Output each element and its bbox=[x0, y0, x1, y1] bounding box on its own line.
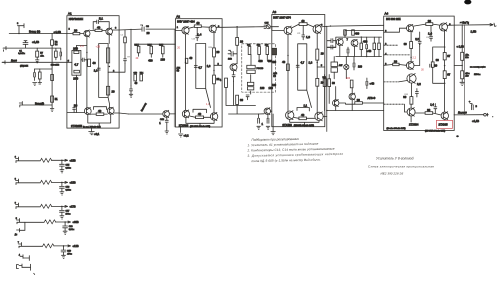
svg-text:Вход (п): Вход (п) bbox=[29, 30, 40, 34]
resistor zigzag R61 bbox=[40, 158, 52, 162]
node dot A4 bbox=[410, 57, 411, 58]
wire VT22 VT23 emitters down bbox=[411, 116, 445, 122]
wire input bus to A1 bbox=[9, 33, 67, 35]
svg-text:30: 30 bbox=[404, 42, 407, 46]
ground row1 bbox=[60, 170, 64, 173]
ground below A2 bbox=[179, 127, 183, 137]
svg-text:Схема электрическая принципи: Схема электрическая принципиальная bbox=[368, 165, 434, 169]
resistor R39 bbox=[316, 49, 319, 60]
svg-text:2ТХ408: 2ТХ408 bbox=[282, 123, 292, 127]
wire R5 C3 leads bbox=[52, 48, 61, 60]
resistor zigzag R64 bbox=[44, 220, 56, 224]
resistor R46 bbox=[328, 79, 331, 87]
svg-text:4,7: 4,7 bbox=[74, 63, 78, 67]
svg-text:+2В: +2В bbox=[96, 46, 101, 49]
svg-text:(П): (П) bbox=[273, 76, 276, 78]
relay K2 contacts bbox=[247, 82, 253, 85]
wire resistor stubs bbox=[139, 44, 163, 57]
arrow row5 bbox=[68, 245, 71, 247]
box A1 bbox=[67, 16, 119, 128]
capacitor C25 bbox=[366, 78, 368, 89]
node dot A1 input bbox=[86, 52, 87, 53]
resistor R31 bbox=[236, 95, 239, 104]
svg-text:+0,1: +0,1 bbox=[94, 132, 100, 136]
svg-text:R24: R24 bbox=[209, 47, 212, 49]
svg-text:+1,1В: +1,1В bbox=[472, 119, 479, 123]
terminal output bbox=[484, 113, 487, 116]
svg-text:2ТХ404: 2ТХ404 bbox=[409, 123, 419, 127]
terminal F3 bbox=[16, 203, 19, 209]
node dot A2 bbox=[185, 62, 186, 63]
connector X2 bbox=[266, 25, 270, 29]
wire input 3 to pin9 bbox=[3, 61, 67, 63]
wire R57 to R58 bbox=[454, 60, 462, 71]
svg-text:10В: 10В bbox=[228, 58, 232, 60]
svg-text:67: 67 bbox=[447, 54, 450, 58]
svg-text:4Вт: 4Вт bbox=[465, 76, 468, 78]
node bbox=[462, 65, 463, 66]
transistor VT6 bbox=[182, 27, 189, 34]
wire row3 bbox=[16, 205, 68, 207]
svg-text:40: 40 bbox=[189, 56, 192, 60]
node bbox=[236, 26, 237, 27]
svg-text:(4В)С1Е: (4В)С1Е bbox=[20, 66, 29, 68]
resistor R34 bbox=[266, 47, 269, 55]
svg-text:А3: А3 bbox=[273, 10, 277, 14]
ground row5 bbox=[62, 255, 66, 258]
ground C20 bbox=[266, 126, 270, 129]
loop lower A3 bbox=[297, 108, 309, 112]
transistor VT3 bbox=[84, 108, 91, 115]
capacitor C11 bbox=[130, 86, 133, 95]
svg-text:R12: R12 bbox=[148, 45, 151, 47]
ground C12 bbox=[165, 131, 169, 134]
svg-text:+60В: +60В bbox=[73, 220, 79, 224]
capacitor C25b bbox=[353, 60, 355, 70]
resistor R47 bbox=[350, 80, 353, 88]
svg-text:680×10В: 680×10В bbox=[51, 63, 60, 66]
resistor R9 20 bbox=[73, 32, 80, 34]
resistor R45 bbox=[323, 79, 326, 87]
ground row4 bbox=[63, 231, 67, 234]
svg-text:(2П 305А 800мВт 1:7П): (2П 305А 800мВт 1:7П) bbox=[294, 124, 315, 127]
capacitor C7 bbox=[73, 105, 76, 113]
node dot bbox=[492, 116, 493, 117]
wire VT19 out bbox=[448, 24, 455, 26]
capacitor C6 bbox=[81, 58, 87, 62]
wire output top bbox=[454, 24, 493, 26]
svg-text:20: 20 bbox=[74, 104, 78, 108]
box A2 bbox=[175, 19, 222, 127]
svg-text:0,047м: 0,047м bbox=[18, 53, 25, 55]
resistor zigzag R65 bbox=[43, 244, 55, 248]
svg-text:2,2: 2,2 bbox=[417, 82, 421, 86]
wire VT5 to A2 bbox=[169, 113, 175, 115]
node bbox=[330, 25, 331, 26]
resistor R20 bbox=[162, 46, 165, 54]
svg-text:≈ 5мГц: ≈ 5мГц bbox=[460, 21, 469, 25]
svg-text:40: 40 bbox=[97, 25, 101, 29]
resistor R30 bbox=[225, 78, 228, 87]
terminal F5 bbox=[19, 243, 22, 248]
capacitor C17 bbox=[232, 71, 235, 81]
wire R1 leads bbox=[36, 48, 38, 60]
wire VT13 emitter bbox=[316, 33, 318, 112]
feedback loop x432 bbox=[433, 47, 445, 83]
red box 2ТХ305 bbox=[437, 120, 453, 128]
wire row5 bbox=[19, 245, 71, 247]
svg-text:1,3: 1,3 bbox=[306, 35, 310, 39]
resistor R18 bbox=[137, 46, 140, 53]
capacitor C16f bbox=[60, 182, 65, 191]
svg-text:40: 40 bbox=[196, 21, 200, 25]
resistor R11b bbox=[74, 70, 80, 73]
wire row2 bbox=[16, 181, 68, 183]
capacitor C24 bbox=[366, 42, 368, 52]
wire A3 out lower bbox=[323, 116, 327, 118]
svg-text:+1,1В: +1,1В bbox=[32, 40, 39, 44]
svg-text:R21: R21 bbox=[247, 45, 250, 47]
svg-text:200: 200 bbox=[73, 76, 78, 80]
resistor R39b bbox=[316, 78, 319, 86]
resistor R15 bbox=[107, 86, 110, 95]
diode VD1 bbox=[344, 64, 349, 69]
capacitor C27 slant bbox=[418, 38, 421, 47]
transistor VT4 bbox=[107, 107, 114, 114]
svg-text:20: 20 bbox=[112, 89, 116, 93]
svg-text:1500м: 1500м bbox=[474, 74, 481, 76]
wire VT3-R16-VT4 bbox=[91, 113, 107, 115]
wire R29 down bbox=[236, 45, 238, 64]
node dots bus bbox=[138, 44, 139, 45]
loop lower A2 bbox=[193, 109, 207, 112]
resistor R24b bbox=[213, 75, 216, 84]
wire R2 leads bbox=[51, 34, 53, 106]
capacitor C31 bbox=[469, 101, 473, 110]
svg-text:100м: 100м bbox=[66, 213, 71, 215]
wire cluster bus lower bbox=[336, 37, 382, 56]
wire pin4b dashed bbox=[384, 103, 405, 105]
transistor VT8 bbox=[182, 110, 189, 117]
resistor R25 bbox=[185, 58, 188, 63]
node dot rail bbox=[326, 110, 327, 111]
resistor R42 bbox=[352, 30, 355, 35]
node dot A3b bbox=[317, 62, 318, 63]
terminal F2 bbox=[16, 179, 19, 185]
wire lower buses bbox=[327, 103, 384, 111]
svg-text:40: 40 bbox=[301, 113, 305, 117]
svg-text:+ 1,9В: + 1,9В bbox=[457, 46, 465, 49]
svg-text:1,3: 1,3 bbox=[80, 45, 84, 48]
svg-text:20: 20 bbox=[434, 64, 437, 68]
svg-text:20: 20 bbox=[428, 19, 432, 23]
wire VT12 base bbox=[272, 29, 284, 31]
resistor R32 bbox=[248, 47, 251, 55]
svg-text:1,3: 1,3 bbox=[207, 64, 211, 68]
resistor R37 bbox=[287, 64, 290, 71]
svg-text:А1: А1 bbox=[68, 11, 72, 15]
wire A1 out to C8 bbox=[119, 28, 175, 31]
transistor VT13 bbox=[313, 25, 321, 33]
wire heavy vertical bbox=[272, 114, 274, 132]
box A4 bbox=[384, 16, 455, 130]
transistor VT7 bbox=[209, 25, 216, 32]
svg-text:R55: R55 bbox=[405, 94, 408, 96]
wire stub VT16 bbox=[325, 75, 353, 111]
capacitor C24b bbox=[347, 47, 349, 56]
svg-text:+15В: +15В bbox=[70, 158, 76, 162]
wire VT22-R56-VT23 bbox=[415, 113, 441, 115]
capacitor C19f bbox=[61, 246, 66, 255]
wire R6 leads bbox=[39, 69, 41, 83]
svg-text:АЛ4: АЛ4 bbox=[177, 67, 181, 70]
wire VT6 emitter bbox=[185, 34, 187, 110]
node dot A4b bbox=[419, 44, 420, 45]
transistor VT1 bbox=[84, 30, 90, 36]
transistor VT22 bbox=[407, 108, 415, 116]
svg-text:4,7: 4,7 bbox=[301, 60, 305, 64]
svg-text:+0,2: +0,2 bbox=[184, 134, 190, 138]
wire VT1 emitter down bbox=[76, 37, 87, 113]
wire pin4 dashed bbox=[384, 54, 411, 56]
wire row stubs bbox=[334, 57, 354, 79]
svg-text:100: 100 bbox=[272, 84, 277, 87]
ground C19 bbox=[257, 126, 261, 129]
wire A3 out top to A4 bbox=[331, 24, 384, 27]
resistor R44b bbox=[378, 43, 381, 49]
svg-text:20: 20 bbox=[74, 29, 78, 33]
transistor VT9 bbox=[210, 113, 217, 120]
wire rail x326.3 bbox=[326, 26, 328, 131]
svg-text:R11: R11 bbox=[135, 45, 138, 47]
wire pin2 dashed bbox=[384, 44, 399, 46]
wire output lower bbox=[454, 114, 484, 116]
wire VT13 out bbox=[321, 25, 330, 28]
svg-text:АП3·Ф: АП3·Ф bbox=[368, 96, 376, 100]
svg-text:0,33м: 0,33м bbox=[69, 229, 75, 231]
wire VT12 emitter bbox=[287, 34, 289, 111]
terminal F1 bbox=[16, 157, 19, 163]
wire mid bus bbox=[135, 43, 176, 45]
terminal F4b bbox=[17, 229, 20, 233]
transistor VT15 bbox=[315, 112, 323, 120]
node dots rail bbox=[444, 46, 446, 48]
capacitor C4 bbox=[34, 69, 36, 81]
wire VT7 emitter bbox=[213, 32, 215, 112]
wire VT14 VT15 emitters down bbox=[290, 119, 319, 126]
wire VT8 VT9 emitters down bbox=[186, 118, 214, 128]
wire VT22 base bbox=[405, 104, 412, 112]
svg-text:1Вт: 1Вт bbox=[465, 57, 468, 59]
wire VT21 links bbox=[399, 81, 412, 97]
svg-text:(20 кОм 800мВт 1:7П): (20 кОм 800мВт 1:7П) bbox=[387, 128, 406, 130]
resistor R28 40 bbox=[196, 116, 204, 119]
wire stub2 bbox=[22, 266, 31, 268]
resistor R19 bbox=[150, 46, 153, 54]
svg-text:400: 400 bbox=[363, 39, 368, 43]
resistor R8 bbox=[51, 96, 54, 102]
pin 9 wire bbox=[67, 61, 72, 63]
svg-text:0,33м: 0,33м bbox=[66, 167, 72, 169]
svg-text:Дн: Дн bbox=[15, 234, 17, 236]
transistor VT17 bbox=[333, 100, 339, 106]
svg-text:2ТХ325Б: 2ТХ325Б bbox=[71, 124, 82, 128]
svg-text:(2П 305А 800мВт 1:7П): (2П 305А 800мВт 1:7П) bbox=[425, 130, 446, 133]
transistor VT18 bbox=[407, 25, 414, 32]
svg-text:20: 20 bbox=[394, 59, 398, 63]
wire pin6b dashed bbox=[384, 81, 399, 83]
svg-text:ИЛТ 230Г-274: ИЛТ 230Г-274 bbox=[273, 16, 291, 20]
resistor R53 67 bbox=[443, 53, 446, 60]
svg-text:20: 20 bbox=[321, 52, 324, 56]
svg-text:С21: С21 bbox=[297, 33, 300, 35]
transistor VT5 bbox=[163, 111, 170, 118]
arrow row3 bbox=[65, 205, 68, 207]
svg-text:47к: 47к bbox=[465, 54, 468, 56]
svg-text:С13: С13 bbox=[192, 39, 195, 41]
wire VT8-R28-VT9 bbox=[190, 116, 211, 117]
resistor R6 bbox=[39, 72, 42, 79]
connector box A3 left bbox=[272, 48, 277, 55]
svg-text:1,5В: 1,5В bbox=[471, 29, 477, 33]
svg-text:Вход(ℓ): Вход(ℓ) bbox=[35, 101, 44, 105]
stub terminal 1 bbox=[20, 255, 23, 258]
resistor R52 bbox=[431, 62, 434, 67]
wire relay stubs bbox=[251, 55, 268, 95]
capacitor C20 bbox=[267, 114, 269, 123]
wire cluster bus upper bbox=[336, 31, 384, 48]
wire ladder A1 bbox=[99, 35, 110, 108]
svg-text:ИЕ2 390 228 Э3: ИЕ2 390 228 Э3 bbox=[381, 172, 404, 176]
transistor VT10 bbox=[230, 64, 237, 71]
svg-text:+15В: +15В bbox=[70, 180, 76, 184]
wire VT18 base bbox=[384, 28, 407, 32]
resistor R12 40 bbox=[88, 59, 91, 66]
transistor VT14 bbox=[286, 111, 294, 119]
svg-text:40: 40 bbox=[92, 61, 96, 65]
svg-text:R14: R14 bbox=[140, 73, 143, 75]
wire second input bbox=[4, 47, 53, 49]
svg-text:С2: С2 bbox=[121, 35, 123, 37]
transistor VT12 bbox=[284, 26, 292, 34]
svg-text:400: 400 bbox=[148, 58, 153, 62]
node dot A3 bbox=[287, 55, 288, 56]
ground A3 stub bbox=[271, 132, 275, 135]
capacitor C5 loop bbox=[97, 20, 99, 24]
terminal XS3 Вход bbox=[2, 61, 5, 64]
svg-text:100: 100 bbox=[260, 86, 265, 90]
potentiometer box R11 bbox=[72, 51, 81, 76]
resistor R13 long bbox=[107, 48, 110, 63]
resistor R22 bbox=[140, 74, 143, 81]
arrow row2 bbox=[65, 181, 68, 183]
transistor VT2 bbox=[106, 28, 113, 35]
svg-text:40: 40 bbox=[282, 60, 285, 64]
wire lower bus to A2 bbox=[129, 113, 163, 115]
capacitor C18f bbox=[63, 222, 68, 231]
wire rail x444 bbox=[444, 30, 446, 112]
resistor R35 40 bbox=[299, 23, 307, 26]
wire x130.5 vertical bbox=[130, 29, 132, 85]
svg-text:Усилитель У 8-головой: Усилитель У 8-головой bbox=[376, 156, 414, 160]
resistor R1 bbox=[36, 51, 39, 57]
wire branch rail x236.6 bbox=[236, 27, 238, 38]
contact bar 2 bbox=[30, 264, 32, 270]
wire R44b stubs bbox=[378, 37, 380, 56]
svg-text:1,4: 1,4 bbox=[428, 31, 432, 35]
box A3 bbox=[272, 15, 325, 127]
terminal XS4 bbox=[19, 102, 22, 108]
transistor VT19 bbox=[440, 23, 448, 31]
ink dot bbox=[34, 273, 35, 274]
capacitor C8 bbox=[141, 25, 145, 31]
resistor R16 40 bbox=[96, 113, 104, 116]
transistor VT23 bbox=[441, 112, 448, 119]
wire ladder A3 bbox=[298, 44, 312, 108]
wire VT2 out bbox=[113, 29, 120, 31]
resistor R55 bbox=[410, 97, 413, 105]
wire riser F4b bbox=[20, 222, 25, 230]
capacitor C6b ladder bbox=[97, 68, 100, 70]
ink speck bbox=[456, 135, 459, 137]
svg-text:2,2: 2,2 bbox=[413, 57, 417, 60]
svg-text:R13: R13 bbox=[159, 45, 162, 47]
capacitor C19 bbox=[258, 114, 260, 123]
wire input (l) bbox=[20, 104, 52, 106]
wire pin8 bbox=[384, 64, 407, 67]
wire VT14-R40-VT15 bbox=[294, 117, 315, 120]
wire VT10 emitter bbox=[226, 81, 237, 105]
resistor zigzag R62 bbox=[40, 180, 52, 184]
svg-text:+4В: +4В bbox=[367, 49, 372, 53]
resistor R5 bbox=[55, 51, 58, 57]
relay G1 bbox=[336, 39, 343, 46]
ground R58 bbox=[460, 82, 465, 85]
wire A1 bottom out bbox=[114, 113, 128, 114]
svg-text:30: 30 bbox=[427, 108, 431, 112]
node bbox=[61, 160, 63, 162]
svg-text:Выход: Выход bbox=[458, 111, 467, 115]
resistor R41 bbox=[344, 30, 347, 35]
svg-text:1,3: 1,3 bbox=[94, 69, 98, 73]
ink blob top right bbox=[464, 0, 471, 4]
transistor VT16 bbox=[349, 93, 355, 99]
svg-text:40: 40 bbox=[98, 109, 102, 113]
svg-text:20: 20 bbox=[240, 39, 243, 43]
svg-text:ИЛУ 230Г-424: ИЛУ 230Г-424 bbox=[177, 20, 195, 24]
svg-text:20: 20 bbox=[216, 50, 219, 54]
svg-text:2,2: 2,2 bbox=[415, 37, 419, 41]
svg-text:47к: 47к bbox=[40, 55, 43, 57]
svg-text:А4: А4 bbox=[385, 12, 389, 16]
ground C11 bbox=[129, 94, 133, 97]
arrow output bbox=[490, 23, 496, 26]
terminal XS2 bbox=[3, 46, 6, 51]
capacitor C23 on rail bbox=[327, 45, 336, 49]
capacitor C28 loop bbox=[430, 64, 432, 67]
wire ladder A2 bbox=[196, 44, 211, 108]
capacitor C15f bbox=[60, 160, 65, 169]
svg-text:на электролите: на электролите bbox=[470, 67, 486, 69]
resistor R57 bbox=[461, 52, 464, 60]
resistor R49 20 bbox=[426, 23, 433, 26]
resistor R54 67 bbox=[443, 71, 446, 79]
capacitor C9 bbox=[124, 43, 127, 64]
resistor R43 bbox=[360, 43, 363, 49]
resistor R56 30 bbox=[425, 112, 433, 115]
capacitor C22 on rail bbox=[327, 39, 336, 43]
node bbox=[64, 221, 66, 223]
